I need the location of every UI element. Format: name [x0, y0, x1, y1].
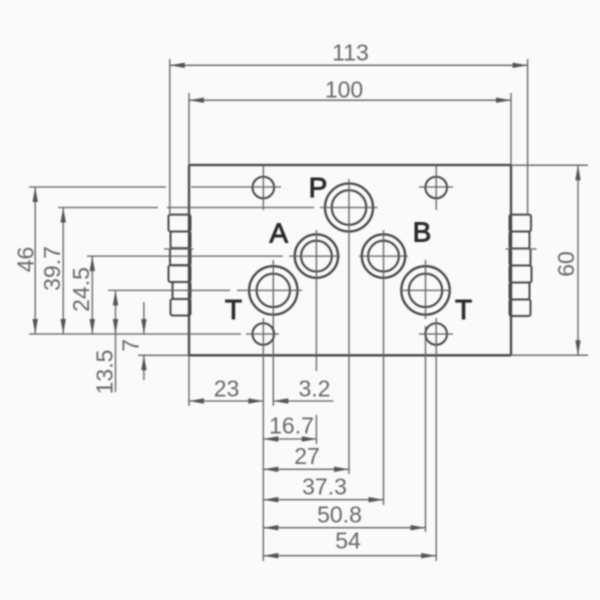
svg-text:54: 54 [335, 528, 361, 554]
dim 60 line [577, 165, 579, 355]
port P inner circle [332, 190, 367, 225]
mounting hole bottom-right horizontal centerline [419, 333, 453, 335]
mounting hole bottom-left vertical centerline + chain extension [262, 318, 264, 561]
svg-text:60: 60 [553, 251, 579, 277]
dim 23 line [189, 400, 263, 402]
mounting hole top-left horizontal centerline + 46 extension [29, 186, 281, 188]
svg-text:39.7: 39.7 [39, 246, 65, 291]
dim 50.8 line [263, 527, 425, 529]
dim 39.7 line [62, 208, 64, 335]
port B outer circle [362, 234, 405, 277]
dim 13.5 line [115, 290, 117, 392]
port P vertical centerline + 27 extension [348, 179, 350, 474]
body right edge extension up (100 dim) [510, 93, 512, 165]
svg-text:50.8: 50.8 [317, 502, 362, 528]
body left edge extension up (100 dim) [188, 93, 190, 165]
svg-text:A: A [269, 218, 288, 249]
svg-text:16.7: 16.7 [269, 413, 314, 439]
svg-text:37.3: 37.3 [302, 474, 347, 500]
dim 7 arrowheads [141, 319, 146, 334]
right rib mid crossing line [506, 248, 537, 250]
port T right inner circle [409, 274, 442, 307]
dim 23 arrowheads [189, 398, 204, 403]
svg-text:T: T [225, 294, 242, 325]
svg-text:46: 46 [13, 247, 39, 273]
port A vertical centerline + 16.7 extension [315, 230, 317, 371]
svg-text:7: 7 [118, 339, 144, 352]
port A outer circle [295, 234, 338, 277]
svg-text:23: 23 [214, 376, 240, 402]
port A inner circle [301, 241, 332, 272]
dim 46 arrowheads [33, 187, 38, 202]
port T left vertical centerline + 3.2 extension [272, 260, 274, 406]
svg-text:13.5: 13.5 [92, 350, 118, 395]
dim 13.5 arrowheads [113, 290, 118, 305]
port T left outer circle [249, 266, 297, 314]
left rib mid crossing line [164, 248, 194, 250]
svg-text:B: B [413, 217, 432, 248]
body bottom edge [189, 354, 511, 356]
dim 16.7 arrowheads [263, 436, 278, 441]
dim 37.3 arrowheads [263, 497, 278, 502]
port B horizontal centerline [359, 255, 408, 257]
dim 27 line [263, 468, 349, 470]
mounting hole bottom-left horizontal centerline + 46 baseline extension [29, 333, 279, 335]
dim 24.5 arrowheads [90, 256, 95, 271]
mounting hole top-left [252, 177, 274, 199]
dim 16.7 line [263, 438, 317, 440]
svg-text:3.2: 3.2 [299, 376, 331, 402]
svg-text:27: 27 [294, 443, 320, 469]
mounting hole top-right vertical centerline [435, 166, 437, 211]
port T left inner circle [257, 274, 290, 307]
dim 113 extension line left [169, 59, 171, 215]
dim 60 arrowheads [575, 165, 580, 180]
port B inner circle [368, 241, 399, 272]
svg-text:113: 113 [332, 40, 369, 66]
body top edge [189, 164, 511, 166]
dim 113 arrowheads [170, 63, 185, 68]
body bottom edge extension left (7 dim) [138, 354, 189, 356]
mounting hole top-left vertical centerline [262, 166, 264, 211]
dim 39.7 arrowheads [61, 208, 66, 223]
svg-text:P: P [309, 172, 328, 203]
mounting hole bottom-right vertical centerline + 54 extension [435, 318, 437, 561]
body top edge extension right (60 dim) [511, 164, 588, 166]
body bottom edge extension right (60 dim) [511, 354, 588, 356]
dim 100 arrowheads [189, 98, 204, 103]
right rib block segments [510, 215, 532, 316]
dim 54 line [263, 555, 436, 557]
dim 3.2 arrowhead [273, 398, 288, 403]
dim 24.5 line [91, 256, 93, 334]
port T right vertical centerline + 50.8 extension [425, 260, 427, 532]
port B vertical centerline + 37.3 extension [383, 230, 385, 505]
dim 3.2 arrow tail [273, 400, 333, 402]
port T right horizontal centerline [400, 289, 451, 291]
mounting hole bottom-left [252, 323, 274, 345]
body left edge [188, 165, 190, 355]
body right edge [510, 165, 512, 355]
port P outer circle [325, 184, 373, 232]
mounting hole top-right horizontal centerline [419, 186, 453, 188]
dim 37.3 line [263, 499, 383, 501]
dim 46 line [34, 187, 36, 334]
dim 50.8 arrowheads [263, 525, 278, 530]
dim 100 line [189, 99, 511, 101]
mounting hole bottom-right [425, 323, 447, 345]
svg-text:24.5: 24.5 [68, 267, 94, 312]
dim 7 lower arrow tail [143, 355, 145, 380]
dim 27 arrowheads [263, 467, 278, 472]
dim 113 line [170, 64, 528, 66]
dim 54 arrowheads [263, 553, 278, 558]
mounting hole top-right [425, 177, 447, 199]
dim 113 extension line right [527, 59, 529, 215]
left rib block segments [169, 215, 191, 316]
svg-text:T: T [455, 294, 472, 325]
port A horizontal centerline + 24.5 extension [87, 255, 340, 257]
svg-text:100: 100 [325, 77, 363, 103]
body left edge extension down (23 dim) [188, 355, 190, 406]
port T right outer circle [401, 266, 449, 314]
dim 7 upper arrow tail [143, 302, 145, 334]
port T left horizontal centerline + 13.5 extension [108, 289, 302, 291]
port P horizontal centerline + 39.7 extension [58, 207, 378, 209]
